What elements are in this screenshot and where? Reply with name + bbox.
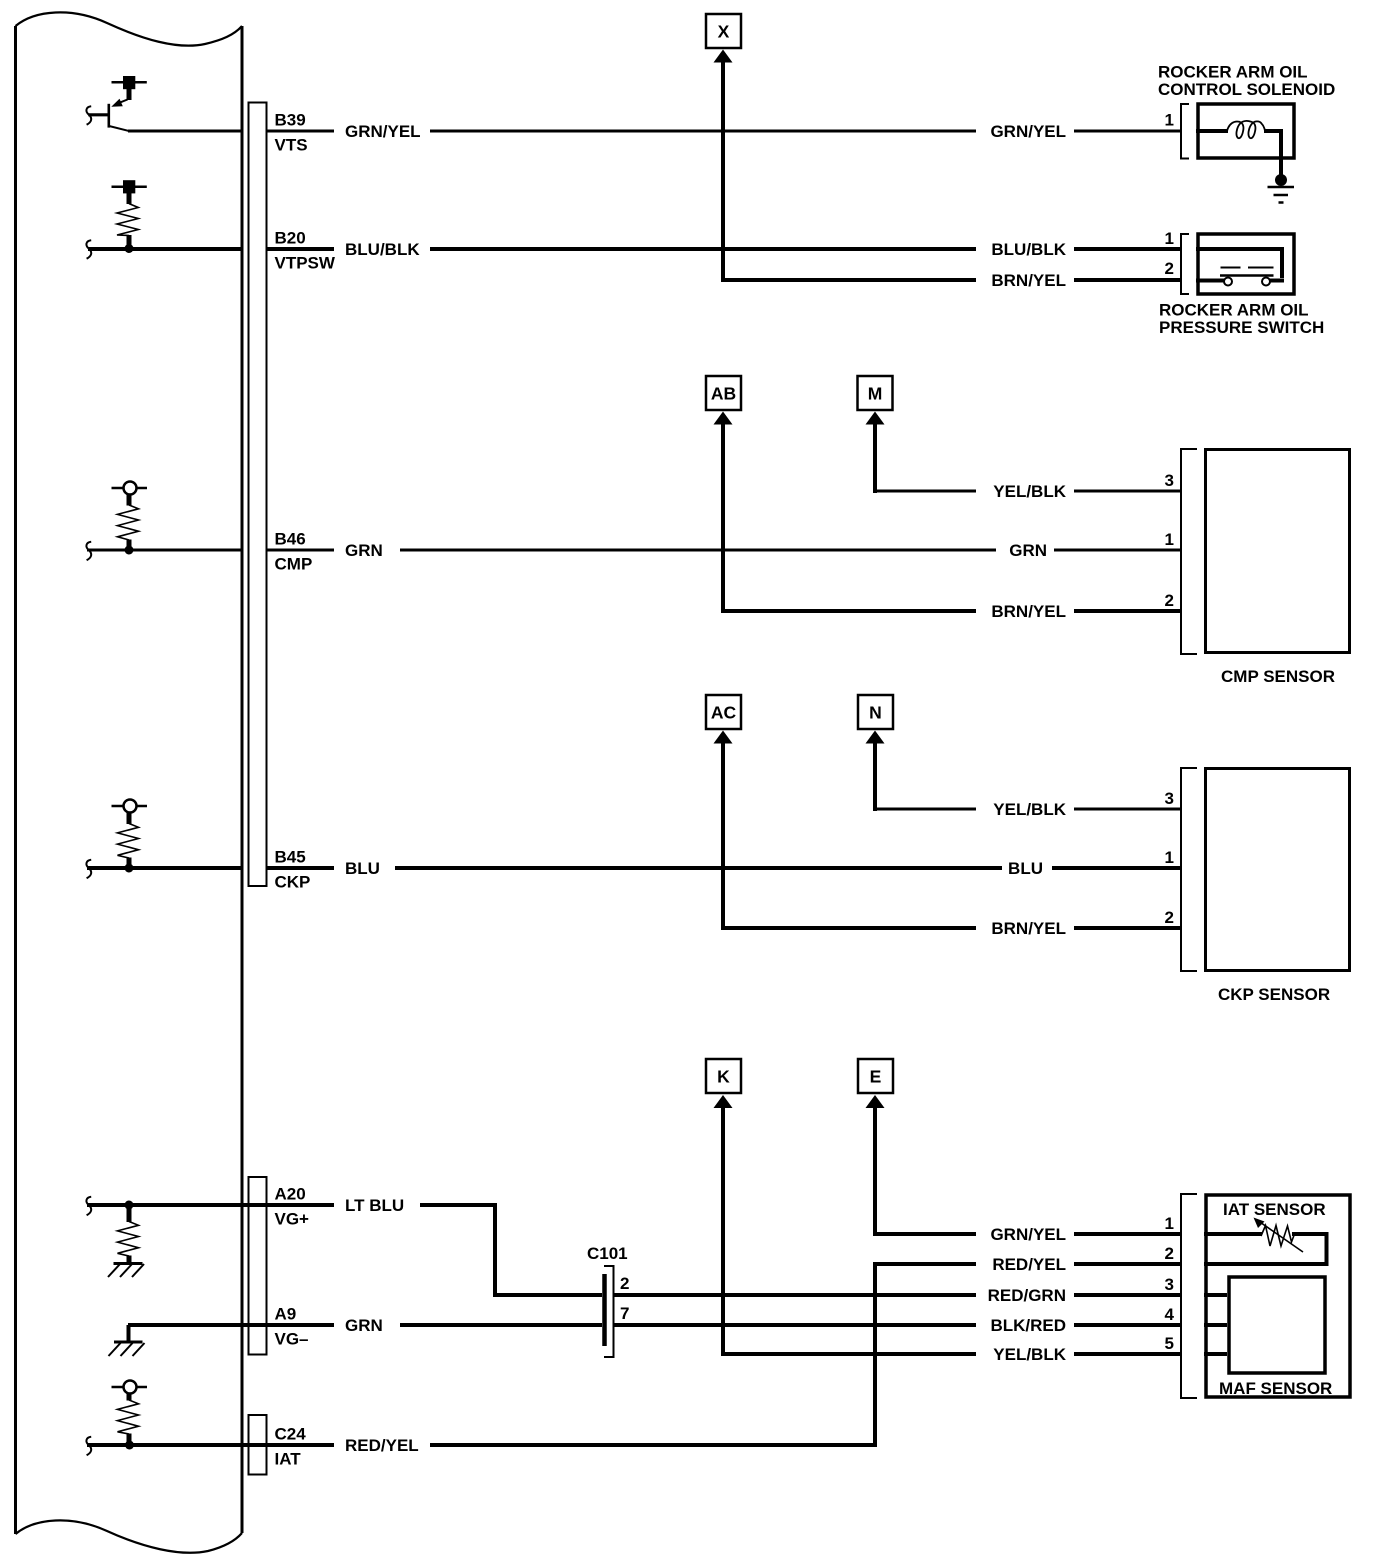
- svg-text:VTS: VTS: [275, 136, 308, 155]
- svg-text:3: 3: [1165, 1275, 1174, 1294]
- svg-text:RED/YEL: RED/YEL: [345, 1436, 419, 1455]
- svg-text:LT BLU: LT BLU: [345, 1196, 404, 1215]
- svg-text:CONTROL SOLENOID: CONTROL SOLENOID: [1158, 80, 1335, 99]
- svg-text:GRN: GRN: [345, 541, 383, 560]
- svg-text:M: M: [868, 384, 883, 404]
- svg-text:BLK/RED: BLK/RED: [990, 1316, 1066, 1335]
- svg-text:B39: B39: [275, 111, 306, 130]
- svg-text:BLU/BLK: BLU/BLK: [991, 240, 1066, 259]
- svg-text:VTPSW: VTPSW: [275, 254, 336, 273]
- svg-text:X: X: [718, 22, 730, 42]
- svg-text:GRN: GRN: [345, 1316, 383, 1335]
- svg-text:A20: A20: [275, 1185, 306, 1204]
- svg-text:ROCKER ARM OIL: ROCKER ARM OIL: [1159, 301, 1309, 320]
- svg-text:VG–: VG–: [275, 1330, 309, 1349]
- svg-text:AC: AC: [711, 703, 737, 723]
- svg-text:AB: AB: [711, 384, 736, 404]
- svg-text:B45: B45: [275, 848, 306, 867]
- svg-text:B20: B20: [275, 229, 306, 248]
- svg-text:IAT: IAT: [275, 1450, 302, 1469]
- svg-text:1: 1: [1165, 229, 1174, 248]
- svg-text:YEL/BLK: YEL/BLK: [993, 800, 1066, 819]
- svg-text:2: 2: [620, 1274, 629, 1293]
- svg-text:2: 2: [1165, 591, 1174, 610]
- svg-text:BRN/YEL: BRN/YEL: [991, 919, 1066, 938]
- svg-text:2: 2: [1165, 908, 1174, 927]
- svg-text:CMP: CMP: [275, 555, 313, 574]
- svg-text:2: 2: [1165, 259, 1174, 278]
- svg-text:1: 1: [1165, 530, 1174, 549]
- svg-text:BLU/BLK: BLU/BLK: [345, 240, 420, 259]
- svg-text:1: 1: [1165, 1214, 1174, 1233]
- svg-text:BLU: BLU: [1008, 859, 1043, 878]
- svg-text:GRN: GRN: [1009, 541, 1047, 560]
- svg-text:BRN/YEL: BRN/YEL: [991, 271, 1066, 290]
- svg-text:A9: A9: [275, 1305, 297, 1324]
- svg-text:1: 1: [1165, 111, 1174, 130]
- svg-text:1: 1: [1165, 848, 1174, 867]
- svg-text:3: 3: [1165, 471, 1174, 490]
- svg-text:B46: B46: [275, 530, 306, 549]
- svg-text:CKP SENSOR: CKP SENSOR: [1218, 985, 1330, 1004]
- svg-text:RED/GRN: RED/GRN: [988, 1286, 1066, 1305]
- svg-text:C24: C24: [275, 1425, 307, 1444]
- svg-text:PRESSURE SWITCH: PRESSURE SWITCH: [1159, 318, 1324, 337]
- svg-text:BRN/YEL: BRN/YEL: [991, 602, 1066, 621]
- svg-text:BLU: BLU: [345, 859, 380, 878]
- svg-text:YEL/BLK: YEL/BLK: [993, 482, 1066, 501]
- svg-text:VG+: VG+: [275, 1210, 310, 1229]
- svg-text:CMP SENSOR: CMP SENSOR: [1221, 667, 1335, 686]
- svg-text:ROCKER ARM OIL: ROCKER ARM OIL: [1158, 63, 1308, 82]
- svg-text:RED/YEL: RED/YEL: [992, 1255, 1066, 1274]
- svg-text:5: 5: [1165, 1334, 1174, 1353]
- svg-text:E: E: [870, 1067, 882, 1087]
- svg-text:N: N: [869, 703, 882, 723]
- svg-text:2: 2: [1165, 1244, 1174, 1263]
- svg-text:4: 4: [1165, 1305, 1175, 1324]
- svg-text:3: 3: [1165, 789, 1174, 808]
- svg-text:GRN/YEL: GRN/YEL: [990, 1225, 1066, 1244]
- svg-text:IAT SENSOR: IAT SENSOR: [1223, 1200, 1326, 1219]
- svg-text:GRN/YEL: GRN/YEL: [990, 122, 1066, 141]
- svg-text:MAF SENSOR: MAF SENSOR: [1219, 1379, 1332, 1398]
- svg-text:GRN/YEL: GRN/YEL: [345, 122, 421, 141]
- svg-text:7: 7: [620, 1304, 629, 1323]
- svg-text:C101: C101: [587, 1244, 628, 1263]
- svg-text:K: K: [717, 1067, 730, 1087]
- svg-text:CKP: CKP: [275, 873, 311, 892]
- svg-text:YEL/BLK: YEL/BLK: [993, 1345, 1066, 1364]
